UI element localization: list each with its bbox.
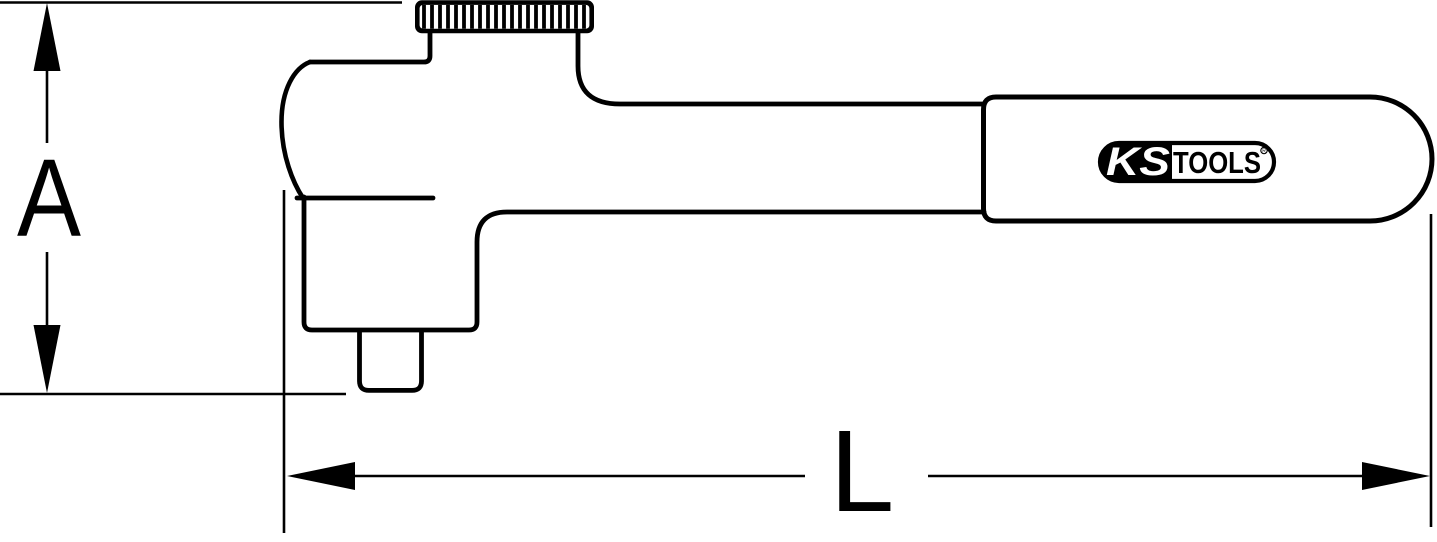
knurled knob stripes xyxy=(424,5,584,29)
dimension A line lower segment xyxy=(46,252,49,340)
dimension L right extension line xyxy=(1430,214,1433,527)
dimension A arrowhead down xyxy=(34,325,61,393)
dimension L line right segment xyxy=(928,475,1365,478)
svg-text:KS: KS xyxy=(1106,140,1170,184)
ratchet head parting line xyxy=(297,196,433,201)
ratchet lower body and shaft bottom xyxy=(304,197,984,330)
knurled knob body xyxy=(415,0,594,33)
dimension L arrowhead left xyxy=(287,462,355,490)
handle outline xyxy=(984,97,1433,221)
square drive peg xyxy=(360,332,422,390)
KS Tools logo registered mark xyxy=(1261,147,1267,153)
dimension A arrowhead up xyxy=(34,3,61,71)
svg-text:R: R xyxy=(1262,148,1266,154)
ratchet head top outline xyxy=(310,31,430,62)
KS Tools logo pill xyxy=(1100,143,1274,181)
dimension L arrowhead right xyxy=(1362,462,1430,490)
dimension A top extension line xyxy=(0,1,402,4)
neck right side and shaft top xyxy=(578,31,984,104)
KS Tools logo black field xyxy=(1098,141,1172,183)
svg-text:L: L xyxy=(830,406,895,536)
ratchet head left bulge xyxy=(282,62,311,198)
dimension A bottom extension line xyxy=(0,393,346,396)
dimension A line upper segment xyxy=(46,60,49,143)
svg-text:TOOLS: TOOLS xyxy=(1173,145,1261,180)
svg-text:A: A xyxy=(17,137,82,260)
dimension L line left segment xyxy=(350,475,805,478)
knurled knob inner face xyxy=(420,5,590,29)
dimension L left extension line xyxy=(283,190,286,533)
